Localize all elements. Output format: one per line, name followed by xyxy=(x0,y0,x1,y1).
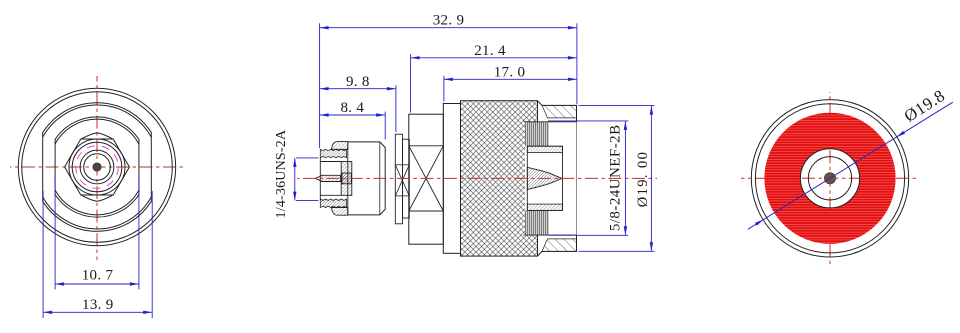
left view: SMA-side end view xyxy=(10,76,186,318)
washer strip 1 xyxy=(395,134,402,224)
dimension line 1/4-36UNS-2A xyxy=(294,158,296,201)
N insulator hatch bottom xyxy=(527,204,562,210)
N-side hex flats (side view) xyxy=(409,114,444,244)
right view: N-side end view xyxy=(741,86,953,264)
flat-sided boss Ø10.7 inner arc xyxy=(55,119,139,215)
extension line right (32.9/21.4/17.0) xyxy=(576,23,578,104)
extension line 8.4 right xyxy=(384,112,386,140)
extension line 5/8 thread bottom xyxy=(548,234,628,236)
outer knurl circle Ø19.8 (right view) xyxy=(751,100,908,257)
extension line 9.8 right xyxy=(395,85,397,132)
N front chamfer hatch bottom xyxy=(542,239,577,252)
SMA 1/4-36 thread band top xyxy=(320,149,346,157)
SMA nut knurl hump top xyxy=(332,142,348,150)
gasket line bottom xyxy=(395,195,409,197)
N insulator hatch top xyxy=(527,146,562,152)
N body right face xyxy=(576,105,578,251)
insulator circle (right view) xyxy=(800,149,859,208)
extension line left (32.9/9.8/8.4) xyxy=(319,23,321,148)
N internal thread 5/8-24 top xyxy=(526,122,548,146)
center contact pin dot (left view) xyxy=(93,163,101,171)
washer strip 2 xyxy=(403,139,410,218)
extension line 17.0 left xyxy=(443,76,445,102)
SMA barrel front face xyxy=(319,158,321,199)
dimension line 13.9 xyxy=(43,311,152,313)
dimension line Ø19.00 xyxy=(650,106,652,252)
extension line 10.7 right xyxy=(138,174,140,290)
extension line Ø19.00 top xyxy=(579,105,655,107)
centerline vertical (left view) xyxy=(96,76,98,260)
extension line 13.9 left xyxy=(42,191,44,318)
hex X diagonal 2 xyxy=(409,146,444,211)
dimension line 21.4 xyxy=(411,57,577,59)
extension line thread top xyxy=(296,157,319,159)
hex flat boundary bottom xyxy=(409,210,444,212)
N internal thread 5/8-24 bottom xyxy=(526,210,548,235)
svg-text:9. 8: 9. 8 xyxy=(346,74,370,90)
N body rear band xyxy=(443,104,460,254)
gasket line top xyxy=(395,164,409,166)
N front chamfer hatch top xyxy=(542,105,577,118)
dimension line 9.8 xyxy=(320,88,396,90)
hex chamfer arc top xyxy=(81,133,113,140)
svg-text:13. 9: 13. 9 xyxy=(82,297,114,313)
extension line 10.7 left xyxy=(54,174,56,290)
dimension line 5/8-24UNEF-2B xyxy=(624,121,626,235)
svg-text:1/4-36UNS-2A: 1/4-36UNS-2A xyxy=(274,129,289,218)
dimension line 8.4 xyxy=(320,114,386,116)
svg-text:10. 7: 10. 7 xyxy=(82,268,114,284)
SMA center pin xyxy=(315,175,340,181)
SMA contact square xyxy=(342,173,351,184)
extension line 5/8 thread top xyxy=(548,120,628,122)
SMA hex nut (end view) xyxy=(65,139,130,195)
svg-text:21. 4: 21. 4 xyxy=(474,43,506,59)
flat-sided boss Ø13.9 outer arc xyxy=(43,103,152,232)
SMA dielectric block xyxy=(341,162,352,196)
SMA bore line bottom xyxy=(321,194,342,196)
center contact dot (right view) xyxy=(824,173,835,184)
svg-text:8. 4: 8. 4 xyxy=(340,100,364,116)
hex chamfer arc bottom xyxy=(81,195,113,202)
dimension line 32.9 xyxy=(320,27,577,29)
N insulator outline xyxy=(527,146,562,210)
thread circle 1/4-36 (magenta) xyxy=(76,146,119,189)
gasket X diagonal 1 xyxy=(395,165,409,196)
gasket X diagonal 2 xyxy=(395,165,409,196)
extension line Ø19.00 bottom xyxy=(579,250,655,252)
red gasket ring xyxy=(782,131,877,226)
extension line 21.4 left xyxy=(410,54,412,112)
SMA bore line top xyxy=(321,161,342,163)
dielectric circle xyxy=(80,150,114,184)
N coupling nut knurl (crosshatch) xyxy=(461,101,538,256)
svg-text:17. 0: 17. 0 xyxy=(494,64,526,80)
cavity bore bottom line xyxy=(524,234,577,236)
contact bore circle (right view) xyxy=(808,157,851,200)
flat-sided boss Ø13.9 inner arc xyxy=(43,105,152,229)
centerline horizontal (middle view) xyxy=(297,177,657,179)
SMA nut knurl hump bottom xyxy=(332,208,348,216)
flat-sided boss Ø10.7 outer arc xyxy=(55,117,139,217)
N center pin cone xyxy=(527,167,562,189)
svg-text:Ø19. 00: Ø19. 00 xyxy=(635,151,651,208)
SMA nut body outline xyxy=(348,142,385,215)
thread relief circle xyxy=(72,142,122,192)
cavity bore top line xyxy=(524,121,577,123)
svg-text:32. 9: 32. 9 xyxy=(433,12,465,28)
leader line Ø19.8 xyxy=(748,102,953,229)
middle view: side section of adapter xyxy=(274,12,657,256)
bore circle xyxy=(84,154,111,181)
SMA nut/body separation line xyxy=(347,142,349,215)
N front band outline xyxy=(538,101,577,256)
SMA 1/4-36 thread band bottom xyxy=(320,199,346,207)
extension line thread bottom xyxy=(296,200,319,202)
hex flat boundary top xyxy=(409,145,444,147)
centerline horizontal (left view) xyxy=(10,166,186,168)
SMA hex corner line xyxy=(379,142,381,215)
dimension line 17.0 xyxy=(444,78,577,80)
centerline vertical (right view) xyxy=(829,92,831,264)
body circle Ø19.0 (right view) xyxy=(755,104,904,253)
centerline horizontal (right view) xyxy=(741,177,919,179)
outer knurl circle Ø19.8 (left view) xyxy=(18,88,175,245)
dimension line 10.7 xyxy=(55,283,139,285)
hex X diagonal 1 xyxy=(409,146,444,211)
body circle Ø19.0 (left view) xyxy=(22,92,173,243)
N cavity interior xyxy=(525,122,577,235)
svg-text:5/8-24UNEF-2B: 5/8-24UNEF-2B xyxy=(608,124,624,231)
hex inscribed circle xyxy=(69,139,125,195)
extension line 13.9 right xyxy=(151,191,153,318)
